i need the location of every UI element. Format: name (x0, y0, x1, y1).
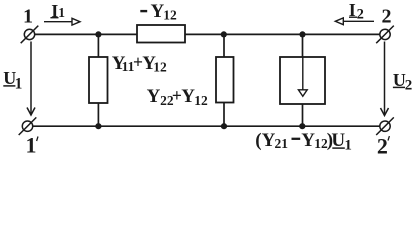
voltage arrow U2 (381, 42, 389, 116)
admittance Y11+Y12 (89, 57, 108, 103)
svg-text:1: 1 (344, 138, 352, 154)
current arrow I1 (44, 18, 80, 25)
label (Y21-Y12)U1 (255, 130, 352, 154)
svg-text:21: 21 (275, 136, 289, 151)
label I2 (349, 0, 364, 23)
wire source bottom (302, 104, 304, 126)
label 1prime (26, 133, 39, 158)
svg-text:12: 12 (153, 60, 167, 75)
node top-right junction (299, 31, 305, 37)
wire bottom rail (33, 125, 381, 127)
wire middle shunt bottom (223, 103, 225, 127)
terminal 1 (21, 26, 39, 44)
label U1 (3, 68, 22, 92)
admittance Y22+Y12 (216, 57, 234, 103)
terminal 2 (376, 26, 394, 44)
node top-middle junction (221, 31, 227, 37)
label 2prime (377, 133, 390, 158)
svg-text:1: 1 (26, 133, 37, 154)
node bottom-right junction (299, 123, 305, 129)
node top-left junction (95, 31, 101, 37)
svg-text:1: 1 (15, 75, 23, 92)
voltage arrow U1 (27, 42, 35, 116)
wire left shunt top (97, 34, 99, 57)
current arrow I2 (335, 18, 374, 25)
wire middle shunt top (223, 34, 225, 57)
svg-text:2: 2 (377, 133, 388, 154)
svg-text:Y: Y (181, 86, 195, 107)
current source arrow (298, 58, 307, 97)
wire source top (302, 34, 304, 57)
label U2 (393, 70, 412, 94)
terminal 2prime (376, 117, 394, 135)
current source box (280, 57, 325, 104)
svg-text:Y: Y (301, 130, 315, 151)
svg-text:1: 1 (58, 5, 65, 20)
svg-text:12: 12 (194, 93, 208, 108)
svg-text:2: 2 (405, 78, 413, 94)
svg-text:2: 2 (382, 5, 392, 27)
wire top rail (34, 33, 380, 35)
terminal 1prime (19, 117, 37, 135)
wire left shunt bottom (97, 103, 99, 126)
svg-text:(: ( (255, 130, 261, 151)
svg-text:12: 12 (163, 8, 177, 23)
label Y22+Y12 (147, 86, 208, 108)
label I1 (50, 1, 65, 21)
svg-text:2: 2 (357, 7, 364, 23)
node bottom-left junction (95, 123, 101, 129)
node bottom-middle junction (221, 123, 227, 129)
svg-text:Y: Y (262, 130, 276, 151)
svg-text:Y: Y (147, 86, 161, 107)
resistor -Y12 (137, 25, 185, 43)
label -Y12 (140, 1, 177, 23)
label Y11+Y12 (112, 52, 167, 75)
svg-text:1: 1 (23, 5, 33, 27)
